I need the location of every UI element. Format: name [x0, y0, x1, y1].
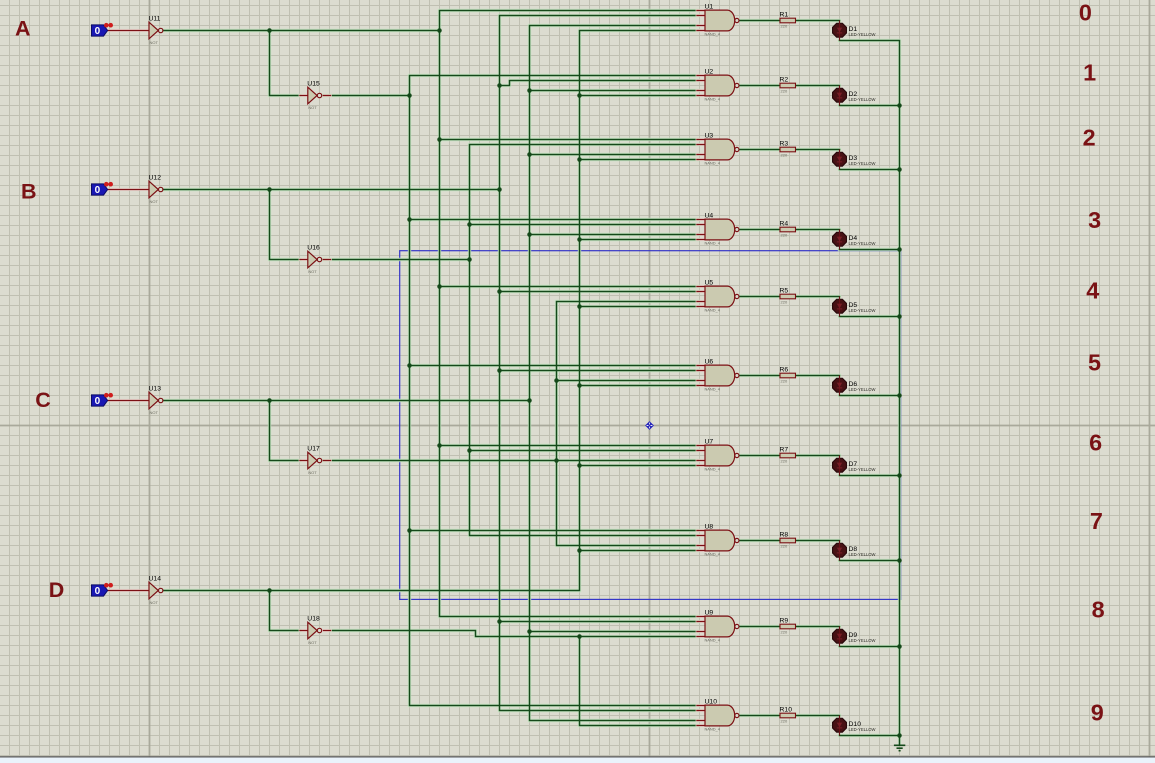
- svg-text:U8: U8: [705, 523, 714, 530]
- svg-text:NAND_4: NAND_4: [705, 96, 721, 101]
- svg-text:U7: U7: [705, 438, 714, 445]
- svg-text:7: 7: [1090, 508, 1103, 534]
- svg-text:R2: R2: [780, 77, 789, 84]
- svg-text:0: 0: [95, 396, 101, 407]
- svg-text:NOT: NOT: [308, 640, 317, 645]
- svg-text:U18: U18: [307, 616, 320, 623]
- svg-text:U11: U11: [149, 16, 161, 23]
- svg-text:0: 0: [95, 185, 101, 196]
- svg-text:220: 220: [781, 630, 788, 635]
- svg-text:0: 0: [95, 26, 101, 37]
- svg-text:R8: R8: [780, 532, 789, 539]
- svg-text:NAND_4: NAND_4: [705, 551, 721, 556]
- svg-text:NAND_4: NAND_4: [705, 726, 721, 731]
- svg-text:220: 220: [781, 459, 788, 464]
- svg-text:220: 220: [781, 300, 788, 305]
- svg-text:NAND_4: NAND_4: [705, 386, 721, 391]
- svg-text:LED-YELLOW: LED-YELLOW: [849, 161, 876, 166]
- svg-text:U5: U5: [705, 279, 714, 286]
- svg-text:U3: U3: [705, 132, 714, 139]
- svg-text:LED-YELLOW: LED-YELLOW: [849, 387, 876, 392]
- svg-text:NAND_4: NAND_4: [705, 637, 721, 642]
- svg-text:U10: U10: [705, 698, 718, 705]
- svg-text:C: C: [35, 388, 51, 412]
- svg-text:220: 220: [781, 89, 788, 94]
- svg-text:U17: U17: [307, 446, 320, 453]
- svg-text:A: A: [15, 16, 31, 40]
- svg-text:220: 220: [781, 153, 788, 158]
- svg-text:NOT: NOT: [308, 269, 317, 274]
- svg-text:LED-YELLOW: LED-YELLOW: [849, 32, 876, 37]
- svg-text:9: 9: [1091, 699, 1104, 725]
- svg-text:R3: R3: [780, 141, 789, 148]
- svg-text:LED-YELLOW: LED-YELLOW: [849, 552, 876, 557]
- svg-text:U4: U4: [705, 212, 714, 219]
- svg-text:6: 6: [1089, 430, 1102, 456]
- svg-text:220: 220: [781, 544, 788, 549]
- svg-text:U2: U2: [705, 68, 714, 75]
- svg-text:LED-YELLOW: LED-YELLOW: [849, 97, 876, 102]
- svg-text:U14: U14: [149, 576, 162, 583]
- svg-text:NOT: NOT: [150, 410, 159, 415]
- svg-text:LED-YELLOW: LED-YELLOW: [849, 308, 876, 313]
- svg-text:220: 220: [781, 24, 788, 29]
- svg-text:0: 0: [1079, 0, 1092, 26]
- svg-text:R7: R7: [780, 447, 789, 454]
- svg-text:LED-YELLOW: LED-YELLOW: [849, 467, 876, 472]
- svg-text:NAND_4: NAND_4: [705, 307, 721, 312]
- svg-text:2: 2: [1083, 125, 1096, 151]
- svg-text:R10: R10: [780, 707, 793, 714]
- svg-text:R1: R1: [780, 12, 789, 19]
- svg-text:NOT: NOT: [308, 105, 317, 110]
- svg-text:NOT: NOT: [150, 199, 159, 204]
- svg-text:R9: R9: [780, 618, 789, 625]
- svg-text:U1: U1: [705, 3, 714, 10]
- svg-text:4: 4: [1086, 278, 1099, 304]
- svg-text:NOT: NOT: [308, 470, 317, 475]
- svg-text:3: 3: [1088, 207, 1101, 233]
- svg-text:220: 220: [781, 233, 788, 238]
- svg-text:NAND_4: NAND_4: [705, 160, 721, 165]
- svg-text:1: 1: [1083, 60, 1096, 86]
- svg-text:D: D: [49, 578, 65, 602]
- svg-text:NAND_4: NAND_4: [705, 31, 721, 36]
- svg-text:NOT: NOT: [150, 40, 159, 45]
- svg-text:U9: U9: [705, 609, 714, 616]
- svg-text:U15: U15: [307, 81, 320, 88]
- svg-text:NAND_4: NAND_4: [705, 466, 721, 471]
- svg-text:LED-YELLOW: LED-YELLOW: [849, 727, 876, 732]
- svg-text:U6: U6: [705, 358, 714, 365]
- svg-text:R6: R6: [780, 367, 789, 374]
- svg-text:220: 220: [781, 719, 788, 724]
- svg-text:U12: U12: [149, 175, 162, 182]
- svg-text:U16: U16: [307, 245, 320, 252]
- svg-text:0: 0: [95, 586, 101, 597]
- svg-text:LED-YELLOW: LED-YELLOW: [849, 241, 876, 246]
- svg-text:U13: U13: [149, 386, 162, 393]
- svg-text:R5: R5: [780, 288, 789, 295]
- svg-text:8: 8: [1092, 597, 1105, 623]
- svg-text:LED-YELLOW: LED-YELLOW: [849, 638, 876, 643]
- svg-text:220: 220: [781, 379, 788, 384]
- svg-text:R4: R4: [780, 221, 789, 228]
- svg-text:NOT: NOT: [150, 600, 159, 605]
- svg-text:NAND_4: NAND_4: [705, 240, 721, 245]
- svg-text:B: B: [21, 180, 37, 204]
- svg-text:5: 5: [1088, 349, 1101, 375]
